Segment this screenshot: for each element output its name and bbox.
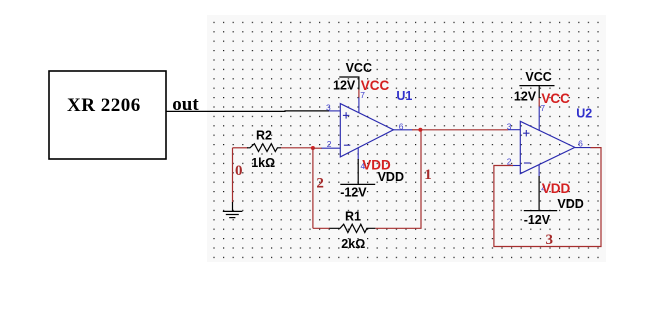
U2 pin 6 stub: [575, 147, 591, 149]
svg-text:VCC: VCC: [361, 78, 390, 93]
svg-text:VCC: VCC: [525, 70, 551, 84]
U1 pin 6 stub: [394, 129, 413, 131]
junction net 1: [418, 128, 422, 132]
svg-text:-12V: -12V: [524, 213, 551, 227]
svg-text:3: 3: [546, 232, 554, 248]
wire red: junction to U1 pin 2: [313, 147, 322, 149]
svg-text:VDD: VDD: [542, 181, 571, 196]
svg-text:-12V: -12V: [340, 186, 367, 200]
op-amp U2: [520, 121, 575, 173]
junction net 2: [311, 146, 315, 150]
wire out: box to U1 pin 3: [166, 110, 329, 113]
ground: [223, 202, 243, 218]
wire red: VCC to U2 pin 7: [538, 97, 540, 107]
svg-text:R2: R2: [256, 129, 272, 143]
U2 pin 4 stub: [538, 165, 540, 177]
resistor R1: [330, 209, 376, 251]
power VCC U1: [333, 61, 372, 92]
wire red: net 0 vertical to ground: [232, 148, 234, 203]
wire red: junction to U2 pin 3: [420, 129, 508, 131]
svg-text:2kΩ: 2kΩ: [341, 237, 365, 251]
svg-text:XR 2206: XR 2206: [67, 95, 141, 116]
svg-text:12V: 12V: [514, 90, 537, 104]
svg-text:6: 6: [578, 139, 583, 149]
op-amp U1: [340, 104, 393, 157]
svg-text:12V: 12V: [333, 78, 356, 92]
svg-text:U2: U2: [576, 107, 592, 121]
U1 pin 3 stub: [329, 110, 340, 112]
power VDD U2: [524, 176, 584, 227]
wire red: VCC to U1 pin 7: [358, 89, 360, 98]
svg-text:3: 3: [507, 122, 512, 132]
wire red: net 0 horizontal to R2: [233, 147, 249, 149]
wire red: net 2 vertical down: [312, 148, 314, 228]
subcircuit box XR 2206: [49, 71, 166, 159]
svg-text:VDD: VDD: [362, 158, 391, 173]
svg-text:6: 6: [399, 121, 404, 131]
U1 pin 7 stub: [358, 97, 360, 114]
wire red: U2 feedback loop net 3: [494, 148, 601, 247]
U2 pin 2 stub: [512, 165, 520, 167]
svg-text:VCC: VCC: [541, 91, 570, 106]
U2 pin 3 stub: [508, 129, 520, 131]
svg-text:U1: U1: [396, 89, 412, 103]
wire red: R1 to net 1 vertical: [375, 130, 421, 229]
svg-text:2: 2: [316, 176, 324, 192]
U1 pin 2 stub: [322, 147, 341, 149]
U1 pin 4 stub: [357, 147, 359, 160]
power VDD U1: [340, 159, 404, 200]
svg-text:VCC: VCC: [346, 61, 372, 75]
svg-text:R1: R1: [345, 209, 361, 223]
svg-text:1kΩ: 1kΩ: [251, 156, 275, 170]
wire red: net 2 to R1: [313, 227, 330, 229]
power VCC U2: [514, 70, 555, 104]
wire red: U1 out to junction net 1: [412, 129, 420, 131]
resistor R2: [247, 129, 281, 170]
svg-text:2: 2: [327, 139, 332, 149]
svg-text:VDD: VDD: [557, 197, 583, 211]
wire red: R2 to junction (net 2): [281, 147, 313, 149]
svg-text:0: 0: [235, 163, 243, 179]
U2 pin 7 stub: [538, 106, 540, 131]
svg-text:3: 3: [326, 103, 331, 113]
svg-text:1: 1: [424, 167, 432, 183]
grid background: [207, 15, 606, 262]
